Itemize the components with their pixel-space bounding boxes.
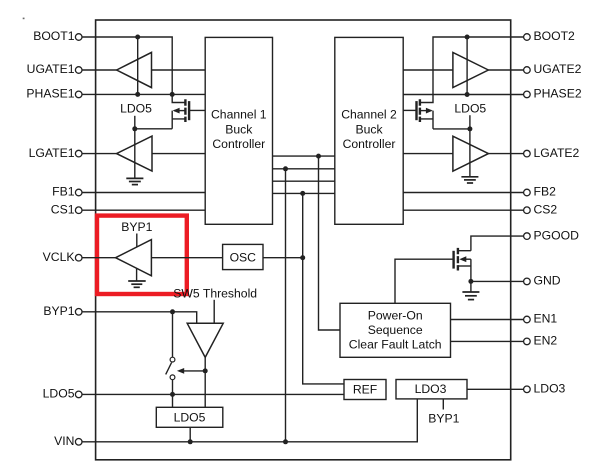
node PHASE2 x boot rail	[465, 92, 470, 97]
wire LDO5 node to left rail	[135, 128, 172, 130]
wire PHASE2	[403, 94, 523, 96]
wire UGATE1 output	[82, 69, 117, 71]
block LDO3	[396, 380, 467, 399]
IC boundary	[96, 20, 511, 460]
svg-text:REF: REF	[353, 383, 377, 397]
op-amp VCLK buffer U3	[116, 240, 152, 276]
pin PHASE2	[524, 87, 582, 101]
wire comparator output to LDO5 block	[204, 357, 206, 407]
svg-text:Channel 1: Channel 1	[211, 108, 267, 122]
node PHASE1 x boot elbow	[170, 92, 175, 97]
svg-text:UGATE1: UGATE1	[27, 62, 75, 76]
wire boot rail through UGATE2 driver	[466, 37, 468, 95]
svg-text:LDO5: LDO5	[120, 102, 152, 116]
oscillator OSC	[223, 244, 263, 269]
op-amp LGATE2 driver U6	[453, 136, 489, 171]
node VIN x center bus	[283, 439, 288, 444]
wire Power-On to PGOOD FET gate	[395, 259, 454, 303]
wire interchannel B	[273, 168, 335, 170]
svg-text:PGOOD: PGOOD	[534, 228, 580, 242]
node switch x LDO5 row	[170, 392, 175, 397]
wire boot rail through UGATE1 driver	[137, 37, 139, 94]
node speck top-left	[23, 18, 25, 20]
op-amp UGATE1 driver U1	[117, 52, 152, 87]
svg-text:Controller: Controller	[212, 137, 265, 151]
node BYP1 x switch branch	[170, 309, 175, 314]
wire BYP1 stub to VCLK buffer	[136, 234, 138, 248]
wire UGATE1 driver input	[152, 69, 206, 71]
wire LGATE2 driver input	[403, 153, 453, 155]
node interchannel A	[316, 154, 321, 159]
node LDO5 rail right	[467, 126, 472, 131]
pin FB1	[52, 185, 82, 199]
wire LDO5 row	[82, 393, 344, 395]
node interchannel D	[300, 191, 305, 196]
regulator LDO5 block	[156, 407, 223, 427]
pin CS2	[524, 202, 558, 216]
svg-text:LDO3: LDO3	[415, 382, 447, 396]
wire bus to REF block	[303, 193, 344, 384]
wire VIN row to LDO3	[82, 399, 417, 442]
wire EN2	[451, 340, 524, 342]
svg-text:LDO5: LDO5	[43, 387, 75, 401]
svg-text:FB1: FB1	[52, 185, 75, 199]
node BOOT1 junction	[135, 35, 140, 40]
pin UGATE1	[27, 62, 82, 76]
svg-text:UGATE2: UGATE2	[534, 62, 582, 76]
wire PHASE1	[82, 93, 205, 95]
pin EN1	[524, 312, 558, 326]
ground PGOOD FET	[462, 281, 479, 299]
node interchannel B	[283, 166, 288, 171]
svg-text:Sequence: Sequence	[368, 323, 423, 337]
wire arrow to switch	[184, 370, 206, 372]
wire CS2	[403, 209, 523, 211]
node OSC output on REF bus	[300, 255, 305, 260]
pin BYP1	[43, 304, 82, 318]
node comparator output branch	[203, 368, 208, 373]
block Channel 1 Buck Controller	[205, 37, 272, 224]
svg-text:LDO3: LDO3	[534, 382, 566, 396]
wire VCLK output	[82, 257, 116, 259]
wire OSC output	[263, 257, 303, 259]
wire LDO5 rail through LGATE2 driver	[469, 115, 471, 176]
switch SW5	[166, 357, 175, 379]
svg-text:GND: GND	[534, 274, 561, 288]
svg-text:CS2: CS2	[534, 202, 558, 216]
wire CS1	[82, 209, 205, 211]
svg-text:BYP1: BYP1	[43, 304, 74, 318]
node LDO5 output x VIN	[188, 439, 193, 444]
wire SW5 Threshold stub	[213, 300, 215, 324]
svg-text:EN2: EN2	[534, 334, 558, 348]
svg-text:OSC: OSC	[230, 251, 257, 265]
block Power-On Sequence Clear Fault Latch	[340, 303, 451, 357]
wire interchannel C	[273, 180, 335, 182]
wire GND row	[471, 280, 524, 282]
svg-text:Buck: Buck	[355, 122, 383, 136]
pin BOOT1	[33, 29, 82, 43]
pin PGOOD	[524, 228, 579, 242]
wire bus to VIN row	[285, 169, 287, 442]
wire interchannel D	[273, 192, 335, 194]
svg-text:Controller: Controller	[343, 137, 396, 151]
svg-text:Power-On: Power-On	[368, 308, 423, 322]
wire UGATE2 output	[488, 69, 523, 71]
wire switch branch upper	[172, 312, 174, 357]
svg-text:BYP1: BYP1	[121, 220, 152, 234]
wire interchannel A	[273, 155, 335, 157]
svg-text:LDO5: LDO5	[174, 411, 206, 425]
svg-text:Channel 2: Channel 2	[341, 108, 397, 122]
node PHASE1 x boot rail	[135, 92, 140, 97]
svg-text:FB2: FB2	[534, 185, 557, 199]
pin EN2	[524, 334, 558, 348]
node LDO5 rail	[132, 126, 137, 131]
wire LGATE1 driver input	[152, 153, 205, 155]
pin GND	[524, 274, 561, 288]
svg-text:Clear Fault Latch: Clear Fault Latch	[349, 338, 442, 352]
ground VCLK buffer	[128, 268, 146, 287]
svg-text:VCLK: VCLK	[43, 250, 75, 264]
wire BOOT2 to pass FET drain	[420, 37, 524, 103]
pin VCLK	[43, 250, 82, 264]
wire EN1	[451, 319, 524, 321]
wire FB1	[82, 192, 205, 194]
pin PHASE1	[26, 87, 82, 101]
pin VIN	[54, 434, 82, 448]
wire VCLK buffer input from OSC	[151, 257, 222, 259]
transistor Q3 PGOOD FET	[454, 248, 471, 282]
svg-text:LGATE1: LGATE1	[29, 146, 75, 160]
wire BYP1 row to comparator	[82, 312, 197, 324]
pin BOOT2	[524, 29, 575, 43]
wire LDO5 rail through LGATE1 driver	[134, 116, 136, 178]
pin LDO3	[524, 382, 566, 396]
block Channel 2 Buck Controller	[335, 37, 403, 224]
pin LDO5	[43, 387, 82, 401]
svg-text:PHASE2: PHASE2	[534, 87, 582, 101]
svg-text:Buck: Buck	[225, 122, 253, 136]
wire PGOOD	[471, 236, 524, 251]
svg-text:LGATE2: LGATE2	[534, 146, 580, 160]
comparator SW5 threshold U4	[187, 323, 223, 357]
wire UGATE2 driver input	[403, 69, 453, 71]
svg-text:CS1: CS1	[51, 202, 75, 216]
svg-text:BOOT2: BOOT2	[534, 29, 576, 43]
wire LDO3 BYP1 stub	[442, 399, 444, 410]
op-amp LGATE1 driver U2	[117, 136, 152, 171]
pin FB2	[524, 185, 556, 199]
svg-text:EN1: EN1	[534, 312, 558, 326]
ground LGATE1 driver	[126, 178, 143, 184]
pin CS1	[51, 202, 82, 216]
transistor Q1 LDO5 pass FET left	[172, 99, 205, 129]
pin UGATE2	[524, 62, 582, 76]
svg-text:PHASE1: PHASE1	[26, 87, 74, 101]
op-amp UGATE2 driver U5	[453, 52, 489, 87]
wire FB2	[403, 192, 523, 194]
wire bus to Power-On block	[319, 156, 341, 330]
wire LGATE2 output	[488, 153, 523, 155]
pin LGATE1	[29, 146, 82, 160]
node BOOT2 junction	[465, 35, 470, 40]
svg-text:SW5 Threshold: SW5 Threshold	[173, 286, 257, 300]
pin LGATE2	[524, 146, 580, 160]
wire LDO5 block output	[189, 427, 191, 442]
ground LGATE2 driver	[461, 177, 478, 183]
svg-text:VIN: VIN	[54, 434, 74, 448]
node GND junction	[468, 279, 473, 284]
transistor Q2 LDO5 pass FET right	[403, 99, 433, 129]
highlight box BYP1/VCLK buffer	[97, 216, 187, 294]
svg-text:LDO5: LDO5	[454, 102, 486, 116]
svg-text:BOOT1: BOOT1	[33, 29, 75, 43]
wire LGATE1 output	[82, 153, 117, 155]
svg-text:BYP1: BYP1	[428, 412, 459, 426]
wire LDO3 output	[467, 388, 524, 390]
wire LDO5 node to right rail	[433, 128, 470, 130]
block REF	[344, 380, 386, 400]
wire switch branch lower	[172, 380, 174, 408]
wire BOOT1 to pass FET drain	[82, 37, 185, 103]
